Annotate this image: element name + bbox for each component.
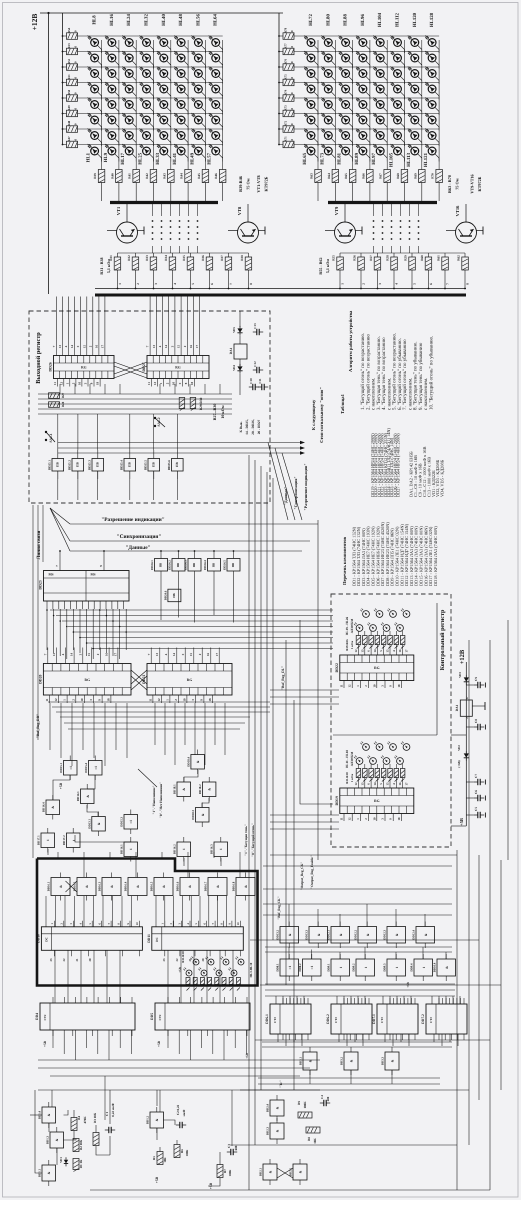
svg-text:R78: R78 <box>284 27 288 33</box>
pin stub bottom DD20.7 <box>101 695 103 703</box>
pin stub DD5 top 3 <box>190 997 192 1003</box>
svg-text:5,1 кОм: 5,1 кОм <box>325 259 330 273</box>
svg-text:"Синхронизация": "Синхронизация" <box>117 534 162 540</box>
LED matrix r5c8 <box>212 101 220 109</box>
pin stub DD5 top 1 <box>167 997 169 1003</box>
LED matrix r3c8 <box>428 70 436 78</box>
wire Разрешение индикации link <box>58 452 300 454</box>
svg-text:"Данные": "Данные" <box>125 545 150 551</box>
svg-text:DD14.1: DD14.1 <box>76 791 80 801</box>
capacitor C12 <box>253 369 257 371</box>
wire R46 to bus <box>222 183 224 202</box>
svg-text:HL65: HL65 <box>302 152 308 164</box>
pin stub bottom DD21.8 <box>211 695 213 703</box>
wire R45 to bus <box>204 183 206 202</box>
pin stub DD19 bottom 4 <box>368 814 370 822</box>
wire led to resistor 3 <box>370 764 372 769</box>
gate DD2.4 <box>270 1100 284 1116</box>
svg-text:К Выв.: К Выв. <box>239 421 243 432</box>
svg-text:DD18.4: DD18.4 <box>186 757 190 767</box>
LED matrix r4c5 <box>160 85 168 93</box>
dot continuation <box>400 220 402 222</box>
LED matrix r8c7 <box>195 147 203 155</box>
svg-text:R37: R37 <box>220 255 224 261</box>
svg-text:(+6В): (+6В) <box>457 760 461 767</box>
svg-text:=1: =1 <box>288 965 292 969</box>
pin stub bottom DD26.2 <box>63 379 65 387</box>
wire VT8 emitter <box>259 230 266 232</box>
svg-text:+5В: +5В <box>406 981 410 987</box>
wire R43 to bus <box>170 183 172 202</box>
svg-text:16: 16 <box>206 653 210 657</box>
svg-text:&: & <box>339 933 343 936</box>
pin stub DD4 bottom 3 <box>92 1030 94 1036</box>
wire link bus Разрешение индикации <box>70 523 318 525</box>
LED matrix r8c2 <box>324 147 332 155</box>
resistor R38 base <box>245 257 252 270</box>
LED matrix r1c7 <box>195 39 203 47</box>
svg-text:"0"-"Нет Наполнения": "0"-"Нет Наполнения" <box>159 782 163 818</box>
LED matrix r3c7 <box>195 70 203 78</box>
wire bus to DD26 pin 1 <box>56 297 58 340</box>
wire column drop to resistor 4 <box>153 160 155 170</box>
svg-text:R53: R53 <box>67 43 71 49</box>
svg-text:11: 11 <box>148 698 152 701</box>
svg-text:17: 17 <box>195 345 199 349</box>
resistor R39 column <box>98 170 105 183</box>
svg-text:R55 - R62: R55 - R62 <box>318 257 323 274</box>
svg-text:12: 12 <box>54 698 58 702</box>
svg-text:&: & <box>208 788 212 791</box>
svg-text:10: 10 <box>74 123 78 127</box>
switch SA1.1 <box>45 431 47 433</box>
wire R63 to bus <box>317 183 319 202</box>
LED matrix r1c6 <box>394 39 402 47</box>
svg-text:DD7.2: DD7.2 <box>421 1014 425 1024</box>
svg-text:R40: R40 <box>110 173 114 179</box>
svg-text:CT2: CT2 <box>380 1017 384 1023</box>
LED matrix r1c5 <box>160 39 168 47</box>
svg-text:21: 21 <box>75 958 79 962</box>
wire hidden transistor column <box>400 204 402 216</box>
LED indicator top 1 <box>363 611 370 618</box>
wire DD24.2 top stub <box>178 551 180 559</box>
resistor indicator 5 <box>381 769 386 778</box>
svg-text:R35: R35 <box>182 255 186 261</box>
wire hidden transistor column <box>391 204 393 216</box>
LED matrix r7c5 <box>160 132 168 140</box>
LED matrix r7c1 <box>91 132 99 140</box>
wire mesh ct2 bottoms down <box>277 1034 279 1042</box>
wire resistor feed row 3 <box>279 66 283 68</box>
LED indicator top 2 <box>376 611 383 618</box>
LED matrix r8c5 <box>376 147 384 155</box>
pin stub DD7.1 top 7 <box>410 998 412 1004</box>
wire verticals to gate row <box>57 414 59 450</box>
wire analog drop 3 <box>159 1090 161 1112</box>
pin stub top DD20.3 <box>64 648 66 664</box>
pin stub DD6.2 bottom 3 <box>356 1034 358 1040</box>
wire row 6 <box>78 113 223 115</box>
pin stub DD22 bottom 5 <box>376 681 378 689</box>
pin stub DD6.1 top 7 <box>303 998 305 1004</box>
gate DD16.4 <box>128 878 147 896</box>
svg-text:мкФ: мкФ <box>182 1109 186 1116</box>
LED matrix r5c4 <box>359 101 367 109</box>
IC DD10 decoder <box>41 927 142 951</box>
pin stub bottom DD27.3 <box>163 379 165 387</box>
svg-text:DD16.3: DD16.3 <box>98 881 102 891</box>
wire column 3 <box>135 40 137 160</box>
gate DD16.8 <box>236 878 255 896</box>
pin stub DD7.1 top 6 <box>407 998 409 1004</box>
resistor R60 base <box>425 257 432 270</box>
wire DD23 left feed <box>42 505 44 562</box>
resistor R55 base <box>337 257 344 270</box>
resistor R51 row feed <box>67 79 78 86</box>
svg-text:R65: R65 <box>344 173 348 179</box>
LED matrix r4c6 <box>177 85 185 93</box>
svg-text:14: 14 <box>70 653 74 657</box>
wire resistor feed row 5 <box>279 97 283 99</box>
wire mesh row3 down <box>309 1070 311 1084</box>
wire routing verticals below DD26 <box>59 384 61 394</box>
resistor R1x block <box>193 978 197 985</box>
svg-text:C10: C10 <box>249 378 253 384</box>
wire VT16 emitter <box>477 230 484 232</box>
wire column 5 <box>170 40 172 160</box>
svg-text:&: & <box>59 885 63 888</box>
dot continuation <box>409 226 411 228</box>
pin stub DD25.2 top <box>77 450 79 459</box>
wire mesh horizontals upper right <box>263 865 452 867</box>
svg-text:R19-R26: R19-R26 <box>345 639 349 651</box>
svg-text:DD20: DD20 <box>38 674 42 683</box>
svg-text:14: 14 <box>373 649 377 653</box>
wire R59 bottom <box>411 270 413 289</box>
LED matrix r1c3 <box>125 39 133 47</box>
wire resistor feed row 6 <box>63 113 67 115</box>
dot continuation <box>152 232 154 234</box>
LED matrix r2c1 <box>91 54 99 62</box>
svg-text:&: & <box>110 885 114 888</box>
LED matrix r6c1 <box>91 116 99 124</box>
svg-text:DD13.1: DD13.1 <box>87 819 91 829</box>
svg-text:&: & <box>276 1106 280 1109</box>
pin stub DD7.1 top 8 <box>414 998 416 1004</box>
svg-text:&: & <box>276 1129 280 1132</box>
pin stub bottom DD21.1 <box>152 695 154 703</box>
svg-text:DD12.1: DD12.1 <box>327 930 331 940</box>
diode VD5 <box>237 328 242 332</box>
dot continuation <box>400 226 402 228</box>
LED matrix r5c2 <box>324 101 332 109</box>
svg-text:VD4, VD5 - КД208Б: VD4, VD5 - КД208Б <box>440 459 445 497</box>
LED matrix r8c7 <box>411 147 419 155</box>
pin stub DD11 top 4 <box>189 921 191 927</box>
wire R61 top <box>444 253 446 257</box>
wire analog drop 1 <box>51 1090 53 1107</box>
resistor R34 base <box>169 257 176 270</box>
svg-text:"Синхронизация": "Синхронизация" <box>293 476 298 509</box>
resistor R1x block <box>186 978 190 985</box>
wire hidden transistor column <box>373 204 375 216</box>
svg-text:VT1-VT8: VT1-VT8 <box>256 175 261 192</box>
wire VT1 base <box>107 230 117 232</box>
LED matrix r3c4 <box>359 70 367 78</box>
wire R33 bottom <box>153 270 155 289</box>
wire DD24.2 bottom stub <box>178 571 180 576</box>
dot continuation <box>161 226 163 228</box>
svg-text:&: & <box>288 933 292 936</box>
svg-text:18: 18 <box>106 698 110 702</box>
gate DD12.3 <box>387 927 406 944</box>
wire VT16 base <box>446 230 456 232</box>
svg-text:16: 16 <box>105 653 109 657</box>
svg-text:R43: R43 <box>162 173 166 179</box>
wire crossing DD20-DD21 <box>131 670 147 684</box>
wire R67 to bus <box>386 183 388 202</box>
wire resistor to IC 1 <box>358 778 360 789</box>
buffer gate DD25.6 <box>172 459 184 472</box>
wire R62 top <box>464 253 466 257</box>
pin stub DD11 top 2 <box>172 921 174 927</box>
svg-text:HL105: HL105 <box>389 152 395 167</box>
svg-text:HL57: HL57 <box>207 152 213 164</box>
LED indicator bottom 4 <box>397 758 404 765</box>
svg-text:R32: R32 <box>127 255 131 261</box>
svg-text:ПВ: ПВ <box>231 563 235 567</box>
svg-text:10: 10 <box>290 30 294 34</box>
LED matrix r6c4 <box>359 116 367 124</box>
IC DD7.2 counter CT2 <box>426 1004 467 1034</box>
svg-text:АЛ307БМ: АЛ307БМ <box>350 619 354 634</box>
pin stub DD11 bottom 6 <box>239 950 241 956</box>
dot continuation <box>391 232 393 234</box>
resistor R75 row feed <box>283 79 294 86</box>
buffer gate DD25.4 <box>124 459 136 472</box>
svg-text:DD24.3: DD24.3 <box>184 560 188 570</box>
LED matrix r7c4 <box>359 132 367 140</box>
wire DA column <box>239 311 241 327</box>
gate DD24.6 <box>168 589 181 602</box>
pin stub DD10 top 6 <box>101 921 103 927</box>
pin stub DD10 bottom 4 <box>104 950 106 956</box>
svg-text:&: & <box>47 1171 51 1174</box>
pin stub top DD27.9 <box>199 340 201 356</box>
pin stub bottom DD20.4 <box>75 695 77 703</box>
svg-text:R50: R50 <box>67 89 71 95</box>
pin stub DD23 top 9 <box>103 562 105 571</box>
LED matrix r5c7 <box>195 101 203 109</box>
svg-text:VT8: VT8 <box>237 206 242 215</box>
wire resistor feed row 3 <box>63 66 67 68</box>
resistor R69 column <box>419 170 426 183</box>
LED indicator bottom 2 <box>370 758 377 765</box>
svg-text:18: 18 <box>397 684 401 688</box>
svg-text:10: 10 <box>182 698 186 702</box>
svg-text:DD15.4: DD15.4 <box>84 763 88 773</box>
resistor R27 <box>49 393 60 399</box>
pin stub DD25.6 bottom <box>176 471 178 479</box>
wire crossing between DD26 and DD27 <box>114 362 147 374</box>
svg-text:DD9.4: DD9.4 <box>410 963 414 972</box>
resistor R65 column <box>349 170 356 183</box>
IC DD6.1 counter CT2 <box>270 1004 311 1034</box>
gate DD12.2 <box>358 927 377 944</box>
LED matrix r6c1 <box>307 116 315 124</box>
LED matrix r6c5 <box>376 116 384 124</box>
svg-text:10: 10 <box>74 108 78 112</box>
svg-text:HL41: HL41 <box>172 152 178 164</box>
gate DD24.2 <box>172 559 185 572</box>
LED indicator bottom 1 <box>356 758 363 765</box>
svg-text:DD18.1: DD18.1 <box>173 784 177 794</box>
wire R69 to bus <box>421 183 423 202</box>
pin stub bottom DD27.7 <box>188 379 190 387</box>
pin stub DD6.2 top 1 <box>343 998 345 1004</box>
wire bus to DD27 pin 5 <box>174 297 176 340</box>
capacitor C11 <box>258 386 262 388</box>
svg-text:VT1: VT1 <box>116 206 121 215</box>
pin stub DD7.2 top 5 <box>452 998 454 1004</box>
resistor R73 row feed <box>283 110 294 117</box>
resistor R58 base <box>391 257 398 270</box>
svg-text:&: & <box>47 1113 51 1116</box>
wire mesh horizontals y1080 <box>258 1077 440 1079</box>
capacitor C6 <box>474 797 478 799</box>
svg-text:C11: C11 <box>258 378 262 384</box>
pin stub DD10 bottom 1 <box>53 950 55 956</box>
wire DD26 outputs routing <box>38 393 232 395</box>
pin stub DD22 bottom 8 <box>400 681 402 689</box>
gate DD3.2 <box>344 1052 358 1070</box>
IC DD21 <box>147 664 232 696</box>
svg-text:11: 11 <box>340 684 344 687</box>
LED matrix r5c6 <box>177 101 185 109</box>
svg-text:14: 14 <box>70 345 74 349</box>
resistor R53 row feed <box>67 48 78 55</box>
dot continuation <box>409 238 411 240</box>
gate DD15.3 <box>124 815 138 830</box>
svg-text:DD16.3: DD16.3 <box>210 844 214 854</box>
pin stub DD10 top 5 <box>91 921 93 927</box>
wire row 8 <box>294 144 439 146</box>
svg-text:R60: R60 <box>420 255 424 261</box>
svg-text:=1: =1 <box>310 965 314 969</box>
svg-text:R68: R68 <box>396 173 400 179</box>
wire counters horizontal bus 3 <box>50 1075 300 1077</box>
pin stub DD5 bottom 2 <box>187 1030 189 1036</box>
gate DD9.1 <box>331 959 350 976</box>
svg-text:CT2: CT2 <box>429 1017 433 1023</box>
resistor indicator 2 <box>363 636 368 645</box>
wire bus to DD27 pin 9 <box>199 297 201 340</box>
wire column drop to resistor 6 <box>404 160 406 170</box>
wire R35 top <box>190 253 192 257</box>
resistor R74 row feed <box>283 95 294 102</box>
resistor R43 column <box>168 170 175 183</box>
dot continuation <box>161 232 163 234</box>
svg-text:+5В: +5В <box>209 1182 213 1189</box>
gate DD13.3 <box>309 927 328 944</box>
LED matrix r7c1 <box>307 132 315 140</box>
wire +12V feed to left matrix resistors <box>62 13 64 145</box>
LED matrix r3c6 <box>394 70 402 78</box>
LED matrix r1c8 <box>428 39 436 47</box>
pin stub DD5 top 5 <box>212 997 214 1003</box>
gate DD9.4 <box>414 959 433 976</box>
svg-text:C2 0,22: C2 0,22 <box>176 1104 180 1115</box>
svg-text:с накоплением.: с накоплением. <box>372 378 377 410</box>
LED matrix r3c1 <box>91 70 99 78</box>
wire R35 bottom <box>190 270 192 289</box>
svg-text:10: 10 <box>74 61 78 65</box>
resistor R1x block <box>222 978 226 985</box>
pin stub DD23 bottom 10 <box>99 601 101 609</box>
LED matrix r6c7 <box>195 116 203 124</box>
dot continuation <box>373 226 375 228</box>
wire R68 to bus <box>404 183 406 202</box>
LED indicator top 4 <box>403 611 410 618</box>
LED matrix r4c5 <box>376 85 384 93</box>
dot continuation <box>373 238 375 240</box>
svg-text:15: 15 <box>189 653 193 657</box>
svg-text:R67: R67 <box>379 173 383 179</box>
svg-text:R27...R30: R27...R30 <box>212 404 217 421</box>
pin stub DD19 bottom 5 <box>376 814 378 822</box>
wire resistor to IC 2 <box>364 778 366 789</box>
svg-text:VD3: VD3 <box>458 672 462 678</box>
LED matrix r2c2 <box>324 54 332 62</box>
pin stub DD6.2 top 2 <box>347 998 349 1004</box>
svg-text:"Output_Reg_Enable": "Output_Reg_Enable" <box>310 855 314 889</box>
svg-text:470К: 470К <box>83 1116 87 1124</box>
pin stub DD6.2 top 4 <box>354 998 356 1004</box>
svg-text:SA1.1: SA1.1 <box>49 433 53 442</box>
svg-text:VT9-VT16: VT9-VT16 <box>470 174 475 193</box>
wire R31 top <box>117 253 119 257</box>
svg-text:10: 10 <box>372 684 376 688</box>
wire row 7 <box>294 128 439 130</box>
svg-text:+5В: +5В <box>43 1040 47 1047</box>
wire Синхронизация link <box>58 447 300 449</box>
LED matrix r6c7 <box>411 116 419 124</box>
LED matrix r7c6 <box>177 132 185 140</box>
resistor R66 column <box>367 170 374 183</box>
capacitor C10 <box>249 386 253 388</box>
svg-text:CT2: CT2 <box>43 1014 47 1020</box>
wire bus to DD26 pin 3 <box>68 297 70 340</box>
pin stub DD25.5 top <box>153 450 155 459</box>
svg-text:10: 10 <box>77 382 81 386</box>
svg-text:DD24.4: DD24.4 <box>203 560 207 570</box>
gate DD16.3 <box>102 878 121 896</box>
pin stub DD19 bottom 8 <box>400 814 402 822</box>
wire resistor to IC 1 <box>358 645 360 656</box>
svg-text:R5: R5 <box>152 1156 156 1160</box>
pin stub bottom DD26.5 <box>81 379 83 387</box>
svg-text:&: & <box>269 1170 273 1173</box>
svg-text:DD3.3: DD3.3 <box>381 1056 385 1065</box>
svg-text:HL19 - HL26: HL19 - HL26 <box>345 616 349 635</box>
gate DD16.1 <box>124 842 138 857</box>
LED matrix r5c5 <box>160 101 168 109</box>
wire VT16 collector <box>465 204 467 222</box>
wire led to resistor 4 <box>376 631 378 636</box>
dot continuation <box>179 226 181 228</box>
LED matrix r4c4 <box>143 85 151 93</box>
